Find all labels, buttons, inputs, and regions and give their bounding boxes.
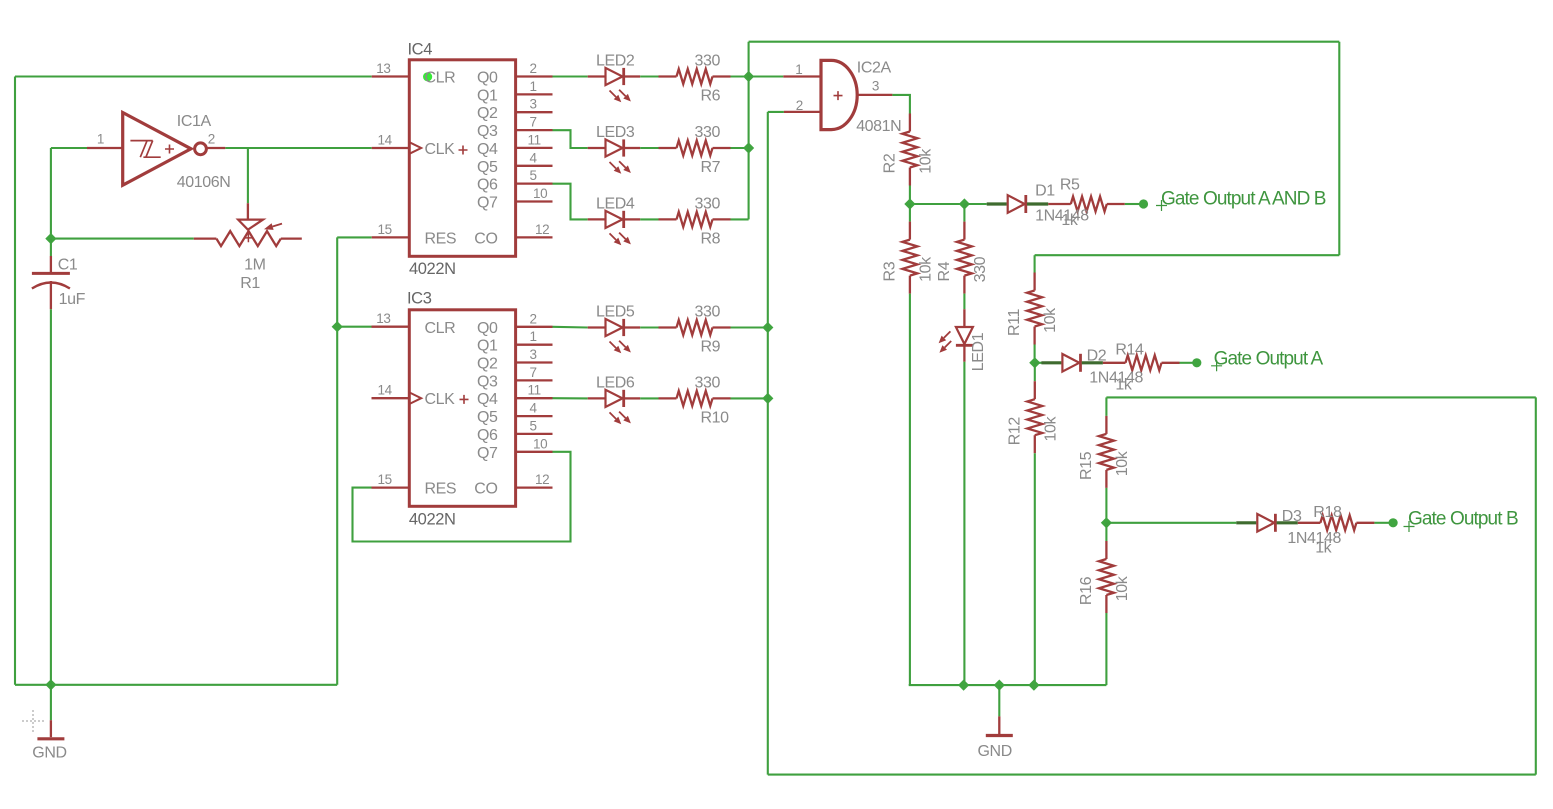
resistor R9 330	[659, 320, 731, 335]
pin 2 Q0 IC4	[516, 75, 553, 77]
LED LED1	[939, 309, 973, 362]
svg-text:Q3: Q3	[477, 123, 498, 140]
wire LED4 to R8	[640, 218, 658, 220]
svg-text:CLK: CLK	[425, 391, 456, 408]
pin 15 RES IC4	[372, 236, 410, 238]
pin 2 Q0 IC3	[516, 326, 553, 328]
svg-text:2: 2	[530, 311, 537, 326]
wire to IC1A pin 1	[51, 147, 87, 149]
wire gate output to R2	[892, 95, 910, 114]
wire node to R12	[1034, 363, 1036, 381]
svg-text:Q6: Q6	[477, 427, 498, 444]
svg-text:330: 330	[695, 374, 721, 391]
resistor R10 330	[659, 391, 731, 406]
net endpoint Gate Output B	[1389, 518, 1398, 527]
svg-text:5: 5	[530, 168, 537, 183]
wire GND stem left	[50, 685, 52, 720]
pin 12 CO IC3	[516, 486, 553, 488]
plus mark IC4	[459, 146, 468, 155]
svg-text:CO: CO	[474, 230, 497, 247]
svg-text:14: 14	[377, 133, 392, 148]
svg-text:330: 330	[695, 304, 721, 321]
resistor R2 10k	[881, 114, 934, 186]
svg-text:GND: GND	[32, 745, 66, 762]
junction GND left	[45, 679, 56, 690]
svg-text:R2: R2	[881, 153, 898, 173]
diode D2 1N4148	[1041, 354, 1125, 372]
svg-text:LED3: LED3	[596, 124, 635, 141]
wire GND bus	[909, 684, 1107, 686]
svg-text:1k: 1k	[1061, 212, 1078, 229]
svg-text:IC4: IC4	[408, 40, 433, 58]
pin 3 Q2 IC3	[516, 361, 553, 363]
svg-text:5: 5	[530, 418, 537, 433]
wire R15 to D3 node	[1105, 488, 1107, 523]
wire C1 bottom to GND	[50, 309, 52, 685]
wire node to R4/D1	[910, 203, 965, 205]
net endpoint Gate Output A	[1192, 358, 1201, 367]
svg-text:Q5: Q5	[477, 409, 498, 426]
LED LED2	[588, 68, 641, 102]
svg-text:Gate Output A: Gate Output A	[1214, 349, 1324, 370]
svg-text:330: 330	[695, 124, 721, 141]
wire R9 to B bus	[731, 326, 768, 328]
svg-text:330: 330	[972, 256, 989, 282]
wire R4 to LED1	[963, 294, 965, 310]
pin 5 Q6 IC4	[516, 182, 553, 184]
svg-text:3: 3	[530, 97, 537, 112]
svg-text:Q0: Q0	[477, 70, 498, 87]
wire node to R3	[909, 204, 911, 222]
ground symbol left	[37, 720, 64, 739]
svg-text:IC3: IC3	[407, 290, 432, 308]
svg-text:LED4: LED4	[596, 195, 635, 212]
svg-text:D1: D1	[1035, 182, 1055, 199]
wire IC3 Q4 to LED6	[553, 397, 588, 399]
svg-text:LED5: LED5	[596, 304, 635, 321]
svg-text:10k: 10k	[1114, 575, 1131, 601]
resistor R8 330	[659, 212, 731, 227]
svg-text:1uF: 1uF	[59, 291, 86, 308]
svg-text:GND: GND	[978, 743, 1012, 760]
wire to D2	[1035, 362, 1042, 364]
wire right vertical B net	[1535, 397, 1537, 774]
svg-text:R11: R11	[1006, 309, 1023, 336]
wire IC3 Q7 to RES loop	[353, 452, 571, 542]
svg-text:R6: R6	[701, 88, 721, 105]
svg-text:R10: R10	[701, 409, 730, 426]
IC IC4 4022N counter	[409, 60, 515, 256]
junction A bus row0	[743, 71, 754, 82]
net endpoint Gate Output A AND B	[1139, 199, 1148, 208]
svg-text:Q1: Q1	[477, 87, 498, 104]
IC IC3 4022N counter	[409, 310, 515, 507]
wire R16 to GND bus	[1105, 613, 1107, 685]
svg-text:10k: 10k	[1042, 416, 1059, 442]
svg-text:15: 15	[377, 472, 391, 487]
junction GND bus stem	[994, 680, 1005, 691]
wire IC4 Q6 jog to LED4	[553, 184, 588, 220]
svg-text:3: 3	[530, 347, 537, 362]
wire R6 to A bus	[731, 75, 749, 77]
wire R14 to net dot	[1180, 362, 1194, 364]
wire A net to R11	[1034, 255, 1036, 272]
svg-text:R15: R15	[1078, 451, 1095, 480]
svg-text:11: 11	[528, 132, 541, 147]
svg-text:R14: R14	[1115, 341, 1144, 358]
svg-text:1k: 1k	[1115, 377, 1132, 394]
svg-text:RES: RES	[425, 481, 457, 498]
resistor R16 10k	[1078, 541, 1131, 613]
svg-text:R4: R4	[936, 261, 953, 281]
pin 14 CLK IC3 (floating)	[372, 397, 410, 399]
wire LED1 to GND bus	[963, 362, 965, 685]
wire IC4 Q3 jog to LED3	[553, 130, 588, 148]
wire R7 to A bus	[731, 147, 749, 149]
junction GND bus R12	[1028, 680, 1039, 691]
wire vertical x337 GND net	[336, 327, 338, 685]
wire vertical RES to CLR junction	[336, 237, 338, 326]
svg-text:Q5: Q5	[477, 159, 498, 176]
svg-text:1: 1	[530, 79, 537, 94]
junction R11/R12/D2	[1029, 357, 1040, 368]
svg-text:13: 13	[376, 311, 390, 326]
node Gate Output B	[1404, 521, 1415, 532]
wire horizontal B net to R15	[1106, 396, 1535, 398]
svg-text:LED2: LED2	[596, 53, 635, 70]
wire B bus vertical	[767, 112, 769, 775]
resistor R6 330	[659, 69, 731, 84]
svg-text:D2: D2	[1087, 348, 1107, 365]
LED LED5	[588, 319, 641, 353]
wire top horizontal A net	[749, 41, 1340, 43]
svg-text:13: 13	[376, 61, 390, 76]
wire right vertical A net	[1338, 42, 1340, 256]
svg-text:Q6: Q6	[477, 177, 498, 194]
pin 13 CLR IC4	[372, 75, 410, 77]
svg-text:7: 7	[530, 115, 537, 130]
wire IC1A output to IC4 CLK	[225, 147, 371, 149]
pin 10 Q7 IC4	[516, 200, 553, 202]
svg-text:14: 14	[377, 383, 392, 398]
svg-text:330: 330	[695, 195, 721, 212]
wire node to R16	[1105, 523, 1107, 541]
junction A bus row4	[743, 142, 754, 153]
resistor R14 1k	[1126, 355, 1162, 370]
svg-text:R5: R5	[1060, 176, 1080, 193]
pin 12 CO IC4	[516, 236, 553, 238]
wire to D1	[964, 203, 986, 205]
resistor R12 10k	[1006, 381, 1059, 453]
resistor R11 10k	[1006, 273, 1059, 345]
svg-text:Gate Output A AND B: Gate Output A AND B	[1161, 189, 1326, 210]
svg-text:10: 10	[533, 436, 547, 451]
origin crosshair	[22, 710, 44, 732]
svg-text:10k: 10k	[1114, 450, 1131, 476]
svg-text:D3: D3	[1282, 508, 1302, 525]
svg-text:CLK: CLK	[425, 141, 456, 158]
svg-text:7: 7	[530, 365, 537, 380]
wire R3 to GND bus	[909, 294, 911, 685]
svg-text:Q7: Q7	[477, 445, 498, 462]
svg-text:Q7: Q7	[477, 195, 498, 212]
wire to IC3 CLR	[337, 326, 371, 328]
svg-text:IC1A: IC1A	[177, 113, 212, 130]
svg-text:R8: R8	[701, 230, 721, 247]
green dot on CLR pin IC4	[423, 72, 432, 81]
wire R5 to net dot	[1125, 203, 1140, 205]
wire B net to R15	[1105, 397, 1107, 416]
svg-text:CO: CO	[474, 481, 497, 498]
pin 4 Q5 IC3	[516, 415, 553, 417]
svg-text:3: 3	[872, 78, 879, 93]
junction R4/D1	[959, 198, 970, 209]
wire horizontal A net to R11	[1035, 254, 1340, 256]
svg-text:R18: R18	[1313, 504, 1342, 521]
resistor R1 potentiometer 1M	[194, 203, 302, 246]
junction R15/R16/D3	[1101, 517, 1112, 528]
wire output to R1 wiper	[247, 148, 249, 203]
ground symbol right	[986, 716, 1013, 735]
svg-text:R1: R1	[240, 275, 260, 292]
svg-text:12: 12	[535, 222, 549, 237]
pin 3 Q2 IC4	[516, 111, 553, 113]
svg-text:4: 4	[530, 401, 538, 416]
svg-text:Q4: Q4	[477, 141, 498, 158]
svg-text:Q1: Q1	[477, 338, 498, 355]
wire node to R4	[963, 204, 965, 222]
pin 10 Q7 IC3	[516, 451, 553, 453]
diode D3 1N4148	[1236, 514, 1320, 532]
svg-text:1M: 1M	[244, 257, 265, 274]
pin 7 Q3 IC4	[516, 129, 553, 131]
resistor R15 10k	[1078, 416, 1131, 488]
svg-text:RES: RES	[425, 230, 457, 247]
pin 14 CLK IC4	[372, 147, 410, 149]
svg-text:LED1: LED1	[970, 332, 987, 371]
svg-text:Q0: Q0	[477, 320, 498, 337]
wire R2 to node	[909, 186, 911, 205]
svg-text:10k: 10k	[917, 148, 934, 174]
LED LED4	[588, 211, 641, 245]
LED LED6	[588, 390, 641, 424]
pin 15 RES IC3	[372, 486, 410, 488]
svg-text:LED6: LED6	[596, 374, 635, 391]
wire left vertical GND net	[14, 77, 16, 685]
wire LED2 to R6	[640, 75, 658, 77]
svg-text:11: 11	[528, 383, 541, 398]
wire R18 to net dot	[1374, 522, 1389, 524]
node Gate Output A	[1211, 360, 1222, 371]
resistor R5 1k	[1071, 197, 1107, 212]
svg-text:4: 4	[530, 150, 538, 165]
svg-text:CLR: CLR	[425, 70, 456, 87]
LED LED3	[588, 139, 641, 173]
wire B to gate pin2	[768, 111, 784, 113]
svg-text:2: 2	[796, 98, 803, 113]
resistor R7 330	[659, 141, 731, 156]
wire R10 to B bus	[731, 397, 768, 399]
wire bottom-left horizontal	[15, 684, 337, 686]
junction B bus LED6	[762, 393, 773, 404]
wire junction to R1	[51, 238, 194, 240]
svg-text:IC2A: IC2A	[857, 59, 892, 76]
op-amp U1: schmitt inverter IC1A 40106N	[87, 113, 225, 186]
svg-text:4022N: 4022N	[409, 511, 456, 529]
svg-text:Q4: Q4	[477, 391, 498, 408]
svg-text:Q2: Q2	[477, 105, 498, 122]
svg-text:1: 1	[795, 62, 802, 77]
svg-text:330: 330	[695, 53, 721, 70]
plus mark IC3	[460, 395, 469, 404]
svg-text:40106N: 40106N	[177, 174, 231, 191]
svg-text:CLR: CLR	[425, 320, 456, 337]
wire to IC4 RES	[337, 236, 372, 238]
svg-text:R12: R12	[1006, 417, 1023, 446]
svg-text:R3: R3	[881, 261, 898, 281]
wire GND stem right	[998, 685, 1000, 716]
svg-text:10k: 10k	[917, 256, 934, 282]
wire LED3 to R7	[640, 147, 658, 149]
gate IC2A 4081N AND	[783, 60, 892, 129]
junction C1 top	[45, 233, 56, 244]
node Gate Output A AND B	[1156, 200, 1167, 211]
wire A to gate pin1	[749, 75, 784, 77]
pin 4 Q5 IC4	[516, 165, 553, 167]
svg-text:1k: 1k	[1315, 540, 1332, 557]
svg-text:1: 1	[530, 329, 537, 344]
resistor R4 330	[936, 222, 989, 294]
svg-text:10: 10	[533, 186, 547, 201]
pin 5 Q6 IC3	[516, 433, 553, 435]
wire R12 to GND bus	[1034, 453, 1036, 685]
svg-text:R9: R9	[701, 339, 721, 356]
wire R11 to D2 node	[1034, 345, 1036, 363]
svg-text:C1: C1	[58, 257, 78, 274]
svg-text:Gate Output B: Gate Output B	[1408, 508, 1518, 529]
svg-text:1: 1	[97, 132, 104, 147]
pin 11 Q4 IC3	[516, 397, 553, 399]
svg-text:4081N: 4081N	[856, 118, 901, 135]
svg-text:4022N: 4022N	[409, 260, 456, 278]
pin 1 Q1 IC3	[516, 344, 553, 346]
wire IC4 Q0 to LED2	[553, 75, 588, 77]
wire top-left to IC4 CLR	[15, 75, 372, 77]
wire C1 top to IC1A input	[50, 148, 52, 239]
svg-text:2: 2	[208, 132, 215, 147]
svg-text:10k: 10k	[1042, 307, 1059, 333]
resistor R18 1k	[1320, 515, 1356, 530]
svg-text:Q3: Q3	[477, 373, 498, 390]
wire LED6 to R10	[640, 397, 658, 399]
wire LED5 to R9	[640, 326, 658, 328]
junction R2/R3/D1	[904, 198, 915, 209]
svg-text:15: 15	[377, 222, 391, 237]
wire bottom horizontal B net	[768, 774, 1536, 776]
pin 7 Q3 IC3	[516, 379, 553, 381]
resistor R3 10k	[881, 222, 934, 294]
pin 13 CLR IC3	[372, 326, 410, 328]
wire IC3 Q0 to LED5	[553, 326, 588, 329]
wire R8 to A bus	[731, 218, 749, 220]
junction GND bus LED1	[958, 680, 969, 691]
wire node to D3	[1106, 522, 1236, 524]
capacitor C1 1uF	[32, 239, 70, 310]
svg-text:Q2: Q2	[477, 356, 498, 373]
pin 1 Q1 IC4	[516, 93, 553, 95]
junction B bus LED5	[762, 322, 773, 333]
svg-text:R7: R7	[701, 159, 721, 176]
wire A bus vertical	[748, 42, 750, 220]
svg-text:2: 2	[530, 61, 537, 76]
pin 11 Q4 IC4	[516, 147, 553, 149]
junction node x337 IC3 CLR	[332, 321, 343, 332]
svg-text:R16: R16	[1078, 576, 1095, 605]
diode D1 1N4148	[987, 195, 1071, 213]
svg-text:12: 12	[535, 472, 549, 487]
